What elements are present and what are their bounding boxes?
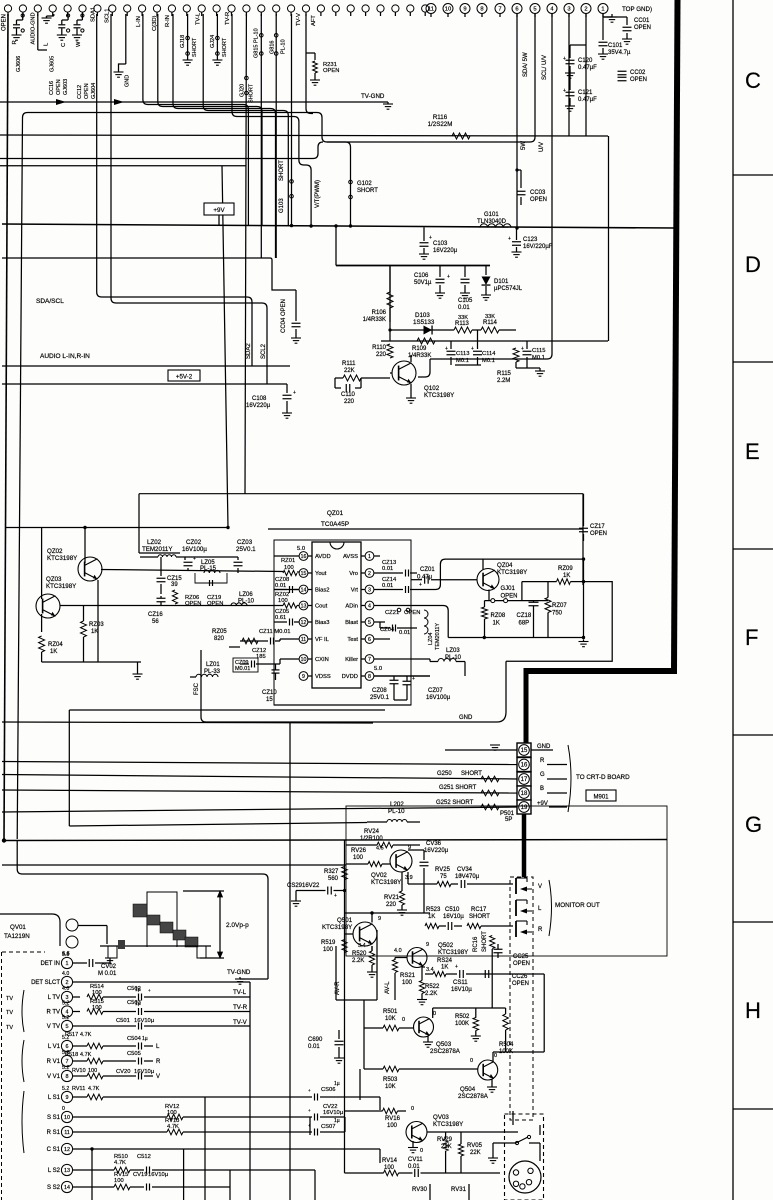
wire y341 [381, 340, 608, 342]
svg-text:CC12: CC12 [77, 85, 83, 99]
svg-text:TV: TV [6, 1010, 13, 1016]
svg-text:CV36: CV36 [426, 841, 442, 847]
svg-text:R: R [12, 40, 18, 44]
wire pin15 left [297, 571, 299, 573]
QV01 pin 10 S S1 [61, 1111, 72, 1122]
QZ01 pin 9 VDSS [299, 672, 308, 681]
svg-text:PL-10: PL-10 [281, 39, 287, 54]
G103 SHORT circles [290, 180, 294, 184]
svg-text:RZ09: RZ09 [558, 566, 573, 572]
wire qz04 collector feed [417, 559, 584, 589]
svg-text:QV02: QV02 [371, 872, 387, 879]
svg-text:VF IL: VF IL [315, 637, 330, 643]
waveform step 5 [185, 937, 198, 947]
svg-text:GND: GND [537, 744, 551, 750]
diode D101 [485, 265, 487, 275]
svg-text:R106: R106 [372, 310, 387, 316]
waveform outline [147, 892, 177, 947]
svg-text:13: 13 [301, 603, 307, 609]
svg-text:0.01: 0.01 [382, 566, 393, 572]
svg-text:25V0.1: 25V0.1 [370, 695, 390, 701]
svg-text:SHORT: SHORT [222, 37, 228, 57]
margin tick y549 [733, 548, 773, 550]
svg-text:AFT: AFT [311, 15, 317, 26]
svg-text:KTC3198Y: KTC3198Y [497, 569, 527, 576]
svg-text:C690: C690 [308, 1037, 323, 1043]
wire C120 tap [570, 44, 586, 46]
short GJ18 [187, 14, 189, 58]
waveform step 2 [147, 915, 160, 925]
svg-text:RV11: RV11 [72, 1086, 85, 1092]
svg-text:AUDIO-GND: AUDIO-GND [31, 12, 37, 44]
connector pin x127.2 [124, 5, 131, 12]
svg-text:TV-L: TV-L [233, 989, 247, 996]
wire crt row G [2, 775, 517, 780]
svg-text:G: G [745, 812, 762, 837]
svg-text:0.01: 0.01 [458, 305, 470, 311]
GJ01 OPEN [485, 600, 549, 602]
connector pin x276.2 [273, 5, 280, 12]
svg-text:R501: R501 [383, 1009, 398, 1015]
svg-text:OPEN: OPEN [56, 79, 62, 95]
svg-text:6: 6 [66, 1044, 69, 1050]
border thick corner [526, 668, 677, 674]
GND bracket pin9 [125, 14, 127, 64]
svg-text:PL-10: PL-10 [388, 808, 405, 815]
QV01 big pins [66, 919, 78, 931]
svg-text:0: 0 [433, 1011, 436, 1017]
wire y365 [455, 364, 481, 366]
connector pin x37.8 [34, 5, 41, 12]
waveform step 4 [173, 930, 186, 940]
svg-text:Cout: Cout [315, 604, 328, 610]
svg-text:CZ07: CZ07 [428, 688, 443, 694]
svg-text:+: + [447, 274, 450, 280]
svg-text:1K: 1K [91, 629, 98, 635]
svg-text:G815 PL-10: G815 PL-10 [254, 28, 260, 58]
wire mid v x380 [379, 1097, 381, 1110]
svg-text:11: 11 [64, 1130, 70, 1136]
svg-text:+: + [455, 964, 458, 970]
svg-text:TV: TV [6, 996, 13, 1002]
svg-text:2.2K: 2.2K [425, 991, 437, 997]
svg-text:CV19: CV19 [133, 1172, 148, 1178]
svg-text:L202: L202 [390, 801, 404, 808]
waveform arrow [219, 891, 221, 958]
svg-text:15: 15 [521, 748, 528, 754]
svg-text:SDA/ 5W: SDA/ 5W [523, 52, 529, 77]
border thick vertical right [674, 0, 678, 671]
wire r501 left [363, 1000, 365, 1028]
svg-text:R-IN: R-IN [165, 15, 171, 27]
transistor Q501 [353, 922, 377, 946]
svg-text:OPEN: OPEN [323, 68, 339, 74]
QZ01 pin 10 CXIN [299, 655, 308, 664]
svg-text:1K: 1K [441, 965, 448, 971]
wire QZ01 box left [138, 494, 140, 553]
connector pin x186.8 [183, 5, 190, 12]
wire SDA1 down [97, 14, 252, 366]
svg-text:SHORT: SHORT [357, 188, 378, 194]
svg-text:Blast: Blast [345, 620, 358, 626]
svg-text:C106: C106 [414, 273, 429, 279]
svg-text:S S1: S S1 [47, 1115, 61, 1121]
svg-text:33K: 33K [485, 314, 495, 320]
svg-text:AUDIO L-IN,R-IN: AUDIO L-IN,R-IN [40, 353, 90, 360]
svg-text:R V1: R V1 [47, 1059, 61, 1065]
connector pin x201.7 [198, 5, 205, 12]
svg-text:56: 56 [152, 619, 159, 625]
svg-text:KTC3198Y: KTC3198Y [322, 924, 352, 931]
capacitor C110 [334, 378, 336, 388]
svg-text:5.2: 5.2 [62, 1086, 69, 1092]
wire R116 line [0, 135, 608, 136]
svg-text:L TV: L TV [48, 995, 60, 1001]
svg-text:5: 5 [66, 1024, 69, 1030]
wire pin6 down 5W [516, 13, 518, 228]
svg-text:185: 185 [256, 654, 266, 660]
connector pin 8 [477, 4, 487, 14]
svg-text:3: 3 [567, 6, 570, 12]
resistor G252 [481, 804, 499, 810]
margin tick y735 [733, 734, 773, 736]
svg-text:1K: 1K [563, 573, 570, 579]
svg-text:RV16: RV16 [385, 1116, 401, 1122]
connector pin x142.1 [139, 5, 146, 12]
svg-text:TV-R: TV-R [233, 1004, 248, 1011]
svg-text:35V4.7µ: 35V4.7µ [608, 50, 631, 56]
wire bundle 3 [203, 14, 288, 225]
svg-text:8: 8 [480, 6, 483, 12]
connector pin 7 [495, 4, 505, 14]
svg-text:+: + [412, 676, 415, 682]
wire pin16 left [274, 555, 299, 557]
connector pin x112.3 [109, 5, 116, 12]
resistor RZ08 [482, 607, 488, 619]
svg-text:3.4: 3.4 [358, 943, 366, 949]
svg-text:CV11: CV11 [408, 1157, 423, 1163]
transistor QV03 [406, 1122, 427, 1143]
connector pin x171.9 [168, 5, 175, 12]
connector P501 pin 17 [517, 772, 531, 786]
svg-text:CXIN: CXIN [315, 657, 329, 663]
svg-text:220: 220 [386, 902, 397, 908]
connector pin 10 [443, 4, 453, 14]
svg-text:V/T(PWM): V/T(PWM) [315, 180, 321, 208]
svg-text:1K: 1K [50, 649, 57, 655]
svg-text:GJ603: GJ603 [63, 79, 69, 95]
svg-text:DET SLCT: DET SLCT [31, 980, 60, 986]
wire bundle 1 [158, 14, 262, 225]
wire y676 [374, 675, 430, 677]
wire qz02 [84, 528, 86, 564]
svg-text:RS21: RS21 [400, 973, 416, 979]
svg-text:0: 0 [420, 1148, 423, 1154]
QV01 pin 13 L S2 [61, 1164, 72, 1175]
QZ01 pin 13 Cout [299, 601, 308, 610]
jack L [515, 900, 517, 916]
connector pin 11 [426, 4, 436, 14]
svg-text:4.7K: 4.7K [88, 1086, 100, 1092]
transistor QV02 [390, 850, 412, 872]
connector pin 1 [598, 4, 608, 14]
svg-text:CS06: CS06 [321, 1087, 336, 1093]
svg-text:0: 0 [411, 1106, 414, 1112]
wire TV-GND line [0, 101, 388, 103]
svg-text:100: 100 [402, 980, 413, 986]
wire QZ01 box top [139, 493, 583, 495]
svg-text:C510: C510 [445, 907, 460, 913]
connector pin x216.6 [213, 5, 220, 12]
resistor RZ03 [81, 621, 87, 637]
jack R [515, 921, 517, 937]
svg-text:M901: M901 [593, 795, 609, 801]
resistor RZ04 [39, 636, 45, 652]
wire pin1 down [602, 13, 604, 36]
svg-text:C: C [61, 43, 67, 47]
monitor dashed box [510, 877, 533, 1120]
svg-text:L-IN: L-IN [136, 16, 142, 27]
wire right v x586 [585, 45, 587, 136]
svg-text:4: 4 [368, 603, 371, 609]
svg-text:C108: C108 [252, 396, 267, 402]
svg-text:V TV: V TV [47, 1024, 60, 1030]
capacitor col C [67, 14, 69, 20]
svg-text:G252 SHORT: G252 SHORT [436, 800, 474, 806]
svg-text:W: W [76, 41, 82, 47]
+5V-2 box [168, 370, 200, 381]
svg-text:TV: TV [6, 1025, 13, 1031]
wire AFT down [306, 14, 313, 114]
svg-text:R518: R518 [65, 1052, 78, 1058]
svg-text:6: 6 [368, 637, 371, 643]
resistor R109 [417, 338, 435, 344]
svg-text:KTC3198Y: KTC3198Y [433, 1121, 463, 1128]
capacitor CZ09 [233, 658, 258, 672]
+9V label box [204, 203, 234, 215]
transistor Q102 [392, 361, 416, 385]
svg-text:µPC574JL: µPC574JL [494, 286, 523, 292]
connector pin x306.0 [302, 5, 309, 12]
svg-text:RV05: RV05 [467, 1143, 483, 1149]
svg-text:R522: R522 [425, 984, 440, 990]
svg-text:16V220µ: 16V220µ [424, 848, 449, 854]
svg-text:CZ16: CZ16 [148, 612, 163, 618]
connector pin 3 [564, 4, 574, 14]
svg-text:220: 220 [344, 399, 355, 405]
svg-text:Killer: Killer [345, 657, 358, 663]
svg-text:Q504: Q504 [460, 1086, 476, 1093]
svg-text:0: 0 [470, 1058, 473, 1064]
transistor Q503 [414, 1017, 434, 1037]
waveform enclosure wire [17, 840, 268, 979]
svg-text:9: 9 [66, 1095, 69, 1101]
svg-text:VDSS: VDSS [315, 674, 331, 680]
short GJ24 [216, 14, 218, 58]
svg-text:F: F [745, 625, 758, 650]
svg-text:RV21: RV21 [384, 895, 400, 901]
svg-text:L V1: L V1 [48, 1044, 61, 1050]
wire pin11 [279, 639, 281, 641]
QV02 box [346, 806, 667, 956]
connector pin x157.0 [153, 5, 160, 12]
svg-text:TV-L: TV-L [196, 12, 202, 25]
capacitor CC01 [626, 17, 628, 25]
connector pin x320.9 [317, 5, 324, 12]
resistor G250 [481, 776, 499, 782]
svg-text:OPEN: OPEN [530, 197, 547, 203]
svg-text:RS24: RS24 [437, 958, 453, 964]
wire y865 [2, 864, 346, 866]
svg-text:CZ01: CZ01 [420, 567, 435, 573]
capacitor C101 [602, 36, 604, 40]
transistor Q504 [478, 1060, 498, 1080]
svg-text:C103: C103 [433, 241, 448, 247]
QV01 pin 8 V V1 [61, 1070, 72, 1081]
svg-text:+: + [563, 88, 566, 94]
svg-text:R: R [538, 927, 543, 933]
svg-text:RC16: RC16 [473, 936, 479, 952]
svg-text:16V10µ: 16V10µ [134, 1018, 155, 1024]
svg-text:75: 75 [440, 874, 447, 880]
svg-text:GJ18: GJ18 [180, 35, 186, 48]
QV01 pin 11 R S1 [61, 1126, 72, 1137]
wire v bottomleft 2 [229, 1170, 231, 1200]
svg-text:+: + [293, 390, 296, 396]
svg-text:PL-10: PL-10 [445, 655, 462, 661]
ground TV-GND [387, 102, 389, 104]
svg-text:CS07: CS07 [321, 1124, 336, 1130]
svg-text:SHORT: SHORT [482, 931, 488, 952]
svg-text:R503: R503 [383, 1077, 398, 1083]
svg-text:R: R [540, 758, 545, 764]
svg-text:3.9: 3.9 [405, 875, 413, 881]
wire jog TVR [299, 160, 311, 225]
svg-text:RV25: RV25 [435, 867, 451, 873]
svg-text:R110: R110 [372, 345, 387, 351]
brace S1 [22, 1091, 24, 1153]
svg-text:1: 1 [66, 961, 69, 967]
QZ01 pin 6 Test [365, 635, 374, 644]
svg-text:R: R [156, 1059, 161, 1065]
QV01 pin 14 S S2 [61, 1181, 72, 1192]
connector pin x350.7 [347, 5, 354, 12]
wire pin5 down [327, 13, 535, 142]
svg-text:2SC2878A: 2SC2878A [430, 1048, 461, 1055]
QV01 pin 4 R TV [61, 1006, 72, 1017]
svg-text:SHORT: SHORT [279, 160, 285, 181]
transistor QZ03 [36, 594, 60, 618]
M901 box [586, 790, 616, 801]
waveform step 3 [160, 922, 173, 933]
svg-text:TC0A45P: TC0A45P [321, 521, 349, 528]
svg-text:3: 3 [368, 587, 371, 593]
svg-text:820: 820 [214, 636, 225, 642]
+5V-2 rail [2, 383, 287, 385]
brace TV [22, 990, 24, 1032]
ground pin4 [53, 14, 55, 16]
svg-text:RV10: RV10 [72, 1068, 86, 1074]
svg-text:0.01: 0.01 [399, 630, 410, 636]
svg-text:+: + [445, 346, 448, 352]
margin tick y1109 [733, 1108, 773, 1110]
wire y527 [5, 527, 228, 529]
svg-text:R327: R327 [324, 869, 339, 875]
svg-text:KTC3198Y: KTC3198Y [46, 583, 76, 590]
wire crt row 9V [2, 807, 517, 812]
svg-text:+: + [308, 1088, 311, 1093]
svg-text:GJ606: GJ606 [16, 56, 22, 72]
svg-text:H: H [745, 998, 761, 1023]
wire qz04 bottom [448, 637, 583, 639]
svg-text:G251 SHORT: G251 SHORT [439, 785, 477, 791]
margin tick y175 [733, 174, 773, 176]
QZ01 pin 5 Blast [365, 618, 374, 627]
svg-text:12: 12 [64, 1147, 70, 1153]
connector pin x261.3 [258, 5, 265, 12]
wire y258 [2, 257, 268, 259]
svg-text:KTC3198Y: KTC3198Y [371, 879, 401, 886]
wire ADin [374, 605, 434, 607]
svg-text:9: 9 [463, 6, 466, 12]
svg-text:9: 9 [302, 674, 305, 680]
svg-text:RZ07: RZ07 [552, 603, 567, 609]
connector pin x67.6 [64, 5, 71, 12]
capacitor CZ10 [272, 669, 280, 671]
connector pin x246.4 [243, 5, 250, 12]
wire left y556 [139, 552, 180, 554]
svg-text:8: 8 [66, 1074, 69, 1080]
svg-text:RV14: RV14 [382, 1158, 398, 1164]
svg-text:LZ01: LZ01 [206, 662, 220, 668]
svg-text:TV-R: TV-R [225, 12, 231, 25]
svg-text:560: 560 [328, 876, 339, 882]
wire bundle 0 [143, 14, 249, 225]
connector pin x8.0 [4, 5, 11, 12]
svg-text:10: 10 [64, 1115, 70, 1121]
wire v bottomleft 5 [309, 1117, 311, 1135]
wire pin6 right [374, 638, 390, 640]
svg-text:CZ18: CZ18 [517, 613, 532, 619]
svg-text:16V220µ: 16V220µ [246, 403, 271, 409]
svg-text:5W: 5W [521, 141, 527, 150]
svg-text:22K: 22K [470, 1150, 481, 1156]
svg-text:OPEN: OPEN [590, 531, 607, 537]
svg-text:QV01: QV01 [10, 924, 26, 931]
svg-text:+: + [471, 346, 474, 352]
QZ01 pin 12 Bias3 [299, 618, 308, 627]
resistor R115 [513, 348, 519, 362]
svg-text:V V1: V V1 [47, 1074, 61, 1080]
wire pin2 down [585, 13, 587, 45]
svg-text:RV24: RV24 [364, 829, 380, 835]
connector P501 pin 16 [517, 758, 531, 772]
svg-text:LZ04: LZ04 [428, 632, 434, 645]
svg-text:R517: R517 [65, 1032, 78, 1038]
wire det slct [80, 981, 250, 983]
QV01 pin 9 L S1 [61, 1091, 72, 1102]
svg-text:SDA1: SDA1 [91, 7, 97, 22]
rail y840 [2, 840, 667, 841]
svg-text:10: 10 [301, 657, 307, 663]
svg-text:SCL2: SCL2 [261, 343, 267, 359]
capacitor col W [81, 14, 83, 20]
wire y158 [0, 158, 313, 160]
svg-text:+5V-2: +5V-2 [176, 374, 193, 381]
svg-text:1K: 1K [428, 914, 435, 920]
svg-text:100: 100 [114, 1178, 124, 1184]
svg-text:3.4: 3.4 [426, 967, 434, 973]
